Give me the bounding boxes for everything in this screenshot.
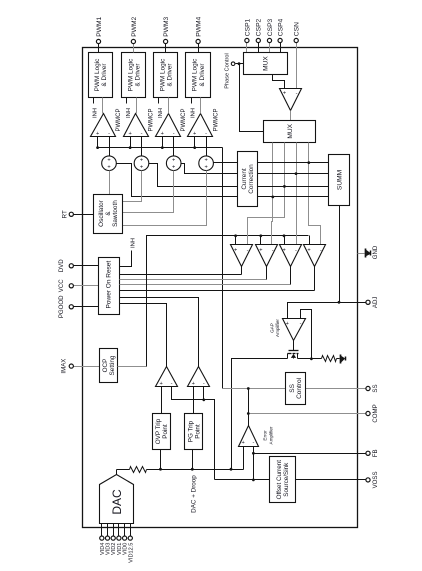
comparator PWMCP2 xyxy=(124,109,155,138)
svg-text:FB: FB xyxy=(372,449,379,457)
pin CSP2 xyxy=(256,18,263,52)
op-amp Error Amplifier xyxy=(239,426,274,447)
wire MUX out3 to OC comparator3 minus xyxy=(295,143,298,245)
svg-text:+: + xyxy=(234,248,237,254)
svg-text:GAP: GAP xyxy=(270,323,275,333)
wire summer1 to correction rail4 xyxy=(117,164,238,197)
block U4 PWM Logic & Driver 4 xyxy=(186,53,211,98)
op-amp CSA current sense amplifier xyxy=(280,89,302,111)
pin VID12.5 xyxy=(128,524,134,563)
wire PWMCP2 minus input to summer 2 xyxy=(141,137,143,156)
svg-text:VCC: VCC xyxy=(58,279,65,292)
svg-text:CSN: CSN xyxy=(294,22,301,36)
summing junction S4 xyxy=(199,156,214,171)
wire U2 output to PWMCP2 xyxy=(136,98,138,114)
summing junction S3 xyxy=(166,156,181,171)
svg-text:Current: Current xyxy=(241,168,248,190)
svg-text:+: + xyxy=(192,381,195,387)
svg-text:Amplifier: Amplifier xyxy=(275,319,280,337)
pin VOSS xyxy=(366,471,379,488)
svg-text:GND: GND xyxy=(372,245,379,259)
wire U1 output to PWMCP1 xyxy=(102,98,104,114)
svg-text:CSP1: CSP1 xyxy=(244,18,251,36)
wire correction rails to SUMM xyxy=(258,163,329,197)
svg-text:PWM Logic: PWM Logic xyxy=(192,58,199,91)
wire U4 output to PWMCP4 xyxy=(200,98,202,114)
wire droop node line xyxy=(147,470,244,513)
svg-text:+: + xyxy=(140,164,143,170)
wire FB to offset current block xyxy=(252,454,255,482)
wire oscillator to summer4 xyxy=(123,171,207,226)
svg-text:& Driver: & Driver xyxy=(101,63,108,87)
wire CSA output to MUX bottom xyxy=(290,111,292,121)
pin VID4 xyxy=(100,524,106,556)
comparator PWMCP4 xyxy=(188,109,220,138)
pin VID3 xyxy=(105,524,111,556)
wire PWMCP4 plus input to error bus xyxy=(193,137,196,150)
svg-text:+: + xyxy=(242,440,245,446)
block PG Trip Point xyxy=(185,414,203,450)
INH stub of U2 xyxy=(126,98,132,118)
svg-text:PG Trip: PG Trip xyxy=(188,420,195,442)
wire MUX out1 to OC comparator2 minus xyxy=(271,143,274,245)
svg-text:Amplifier: Amplifier xyxy=(269,426,274,444)
svg-text:-: - xyxy=(247,248,249,254)
summing junction S2 xyxy=(134,156,149,171)
pin PWM3 xyxy=(163,16,170,52)
resistor R1 droop xyxy=(130,467,147,473)
wire POR to OC comparator1 output xyxy=(120,267,242,275)
svg-text:PWM Logic: PWM Logic xyxy=(94,58,101,91)
svg-text:MUX: MUX xyxy=(263,56,270,71)
wire POR to OVP comparator output xyxy=(120,304,167,367)
wire POR to PG comparator output xyxy=(120,298,199,367)
svg-text:+: + xyxy=(107,164,110,170)
svg-text:OCP: OCP xyxy=(102,359,109,373)
svg-text:+: + xyxy=(259,248,262,254)
pin ADJ xyxy=(358,297,380,309)
comparator PG xyxy=(188,367,210,388)
pin FB xyxy=(366,449,379,457)
comparator PWMCP3 xyxy=(156,109,187,138)
svg-text:-: - xyxy=(108,131,110,137)
svg-text:+: + xyxy=(307,248,310,254)
svg-text:CSP2: CSP2 xyxy=(256,18,263,36)
svg-text:-: - xyxy=(252,440,254,446)
svg-text:INH: INH xyxy=(190,108,196,118)
wire MUX out4 to OC comparator4 minus xyxy=(307,143,320,245)
svg-text:+: + xyxy=(204,157,207,163)
svg-text:-: - xyxy=(300,321,302,327)
svg-text:-: - xyxy=(141,131,143,137)
svg-text:PWM2: PWM2 xyxy=(131,16,138,36)
comparator OC3 xyxy=(280,245,302,267)
comparator OC1 xyxy=(231,245,253,267)
svg-text:+: + xyxy=(128,131,131,137)
wire oscillator to summer3 xyxy=(123,171,174,213)
wire PG Trip Point to droop node xyxy=(191,450,194,471)
svg-text:Setting: Setting xyxy=(109,355,116,375)
svg-text:INH: INH xyxy=(131,238,137,248)
wire MUX top output to CSA plus input xyxy=(273,75,285,89)
svg-text:+: + xyxy=(107,157,110,163)
svg-text:PWMCP: PWMCP xyxy=(149,109,155,132)
svg-text:PWM3: PWM3 xyxy=(163,16,170,36)
svg-text:+: + xyxy=(172,157,175,163)
svg-text:-: - xyxy=(171,381,173,387)
svg-text:PWM4: PWM4 xyxy=(196,16,203,36)
wire POR to OC comparator3 output xyxy=(120,267,291,285)
IC boundary box xyxy=(83,48,358,528)
svg-text:Offset Current: Offset Current xyxy=(276,460,283,500)
wire POR to OC comparator4 output xyxy=(120,267,315,291)
svg-text:-: - xyxy=(205,131,207,137)
pin RT xyxy=(62,210,94,218)
pin VID1 xyxy=(117,524,123,556)
wire OVP plus to OVP Trip Point xyxy=(161,387,163,414)
svg-text:PGOOD: PGOOD xyxy=(58,295,65,318)
svg-text:& Driver: & Driver xyxy=(135,63,142,87)
pin CSP4 xyxy=(278,18,285,52)
ground arrow at R2 xyxy=(337,355,346,364)
svg-text:-: - xyxy=(320,248,322,254)
svg-text:ADJ: ADJ xyxy=(372,297,379,309)
svg-text:DAC + Droop: DAC + Droop xyxy=(191,475,198,513)
wire PWMCP3 minus input to summer 3 xyxy=(173,137,175,156)
block Oscillator & Sawtooth xyxy=(94,195,123,234)
wire OC1 plus stub xyxy=(235,236,237,245)
wire POR to OC comparator2 output xyxy=(120,267,267,280)
pin SS xyxy=(306,384,380,392)
INH stub of U4 xyxy=(190,98,196,118)
svg-text:+: + xyxy=(161,131,164,137)
svg-text:VOSS: VOSS xyxy=(372,471,379,488)
svg-text:-: - xyxy=(173,131,175,137)
svg-text:PWMCP: PWMCP xyxy=(181,109,187,132)
comparator OC4 xyxy=(304,245,326,267)
pin DVD xyxy=(58,259,99,272)
block Current Correction xyxy=(238,152,258,207)
wire POR to INH tap xyxy=(120,238,137,266)
svg-text:PWM1: PWM1 xyxy=(96,16,103,36)
wire Error Amplifier minus to FB xyxy=(252,447,366,455)
wire DAC output to droop resistor xyxy=(117,470,130,475)
svg-text:+: + xyxy=(204,164,207,170)
wire oscillator to summer2 xyxy=(123,171,142,202)
pin IMAX xyxy=(61,359,100,374)
wire Phase Control to MUX bottom xyxy=(240,64,264,132)
svg-text:RT: RT xyxy=(62,210,69,218)
svg-text:+: + xyxy=(286,321,289,327)
pin VID0 xyxy=(123,524,129,556)
svg-text:& Driver: & Driver xyxy=(199,63,206,87)
wire DAC droop node to Error Amplifier plus xyxy=(243,447,245,470)
block Power On Reset xyxy=(99,258,120,315)
wire OCP Setting threshold to OC comparators xyxy=(118,234,309,366)
wire OVP Trip Point to droop node xyxy=(159,450,162,471)
svg-text:Sawtooth: Sawtooth xyxy=(112,200,119,227)
svg-text:VID12.5: VID12.5 xyxy=(128,543,134,563)
wire MOSFET source rail to droop node xyxy=(230,359,288,471)
block U3 PWM Logic & Driver 3 xyxy=(154,53,178,98)
wire OVP and PG minus inputs to VOSS line xyxy=(172,387,215,480)
svg-text:SUMM: SUMM xyxy=(336,170,343,190)
svg-text:COMP: COMP xyxy=(372,404,379,422)
svg-text:Oscillator: Oscillator xyxy=(98,199,105,227)
svg-text:Point: Point xyxy=(195,424,202,439)
svg-text:&: & xyxy=(105,211,112,216)
svg-text:-: - xyxy=(203,381,205,387)
wire VOSS line xyxy=(215,479,366,481)
block U2 PWM Logic & Driver 2 xyxy=(122,53,146,98)
block SUMM xyxy=(329,155,350,206)
wire GAP amp minus feedback xyxy=(301,310,313,361)
svg-text:MUX: MUX xyxy=(287,123,294,138)
wire U3 output to PWMCP3 xyxy=(168,98,170,114)
INH stub of U1 xyxy=(92,98,98,118)
svg-text:PWMCP: PWMCP xyxy=(116,109,122,132)
block Offset Current Source/Sink xyxy=(270,457,296,503)
svg-text:+: + xyxy=(283,91,286,97)
pin VID2 xyxy=(111,524,117,556)
svg-text:+: + xyxy=(140,157,143,163)
svg-text:Correction: Correction xyxy=(248,164,255,194)
block MUX bottom xyxy=(264,121,316,143)
wire SS line left segment xyxy=(223,387,286,390)
wire error bus to PWMCP plus inputs xyxy=(98,148,223,389)
wire GAP amp plus input to ADJ line xyxy=(288,303,358,319)
resistor R2 xyxy=(322,356,337,362)
comparator OVP xyxy=(156,367,178,388)
svg-text:+: + xyxy=(159,381,162,387)
pin CSP1 xyxy=(244,18,251,52)
pin CSN xyxy=(294,22,301,89)
svg-text:Phase Control: Phase Control xyxy=(225,53,231,88)
wire MUX out2 to OC comparator1 minus xyxy=(248,143,286,245)
comparator PWMCP1 xyxy=(91,109,123,138)
svg-text:CSP3: CSP3 xyxy=(267,18,274,36)
block DAC xyxy=(100,475,134,524)
summing junction S1 xyxy=(102,156,117,171)
wire SUMM output to ADJ line xyxy=(338,206,341,304)
block OCP Setting xyxy=(100,349,118,383)
pin PGOOD xyxy=(58,295,99,318)
wire PWMCP1 minus input to summer 1 xyxy=(109,137,111,156)
svg-text:OVP Trip: OVP Trip xyxy=(155,418,162,444)
wire PWMCP1 plus input to error bus xyxy=(96,137,99,150)
svg-text:SS: SS xyxy=(289,383,296,392)
svg-text:INH: INH xyxy=(92,108,98,118)
svg-text:CSP4: CSP4 xyxy=(278,18,285,36)
wire Error Amplifier output riser xyxy=(248,389,250,426)
svg-text:-: - xyxy=(296,91,298,97)
svg-text:PWM Logic: PWM Logic xyxy=(159,58,166,91)
wire MOSFET drain rail to resistor xyxy=(298,358,322,360)
svg-text:+: + xyxy=(172,164,175,170)
svg-text:IMAX: IMAX xyxy=(61,359,68,374)
pin PWM2 xyxy=(131,16,138,52)
pin CSP3 xyxy=(267,18,274,52)
svg-text:INH: INH xyxy=(158,108,164,118)
node Phase Control xyxy=(225,53,244,88)
pin PWM1 xyxy=(96,16,103,52)
wire summer4 to correction rail1 xyxy=(214,162,238,164)
pin GND with ground arrow xyxy=(358,245,380,259)
wire PWMCP3 plus input to error bus xyxy=(161,137,164,150)
wire summer3 to correction rail2 xyxy=(182,164,238,174)
svg-text:Power On Reset: Power On Reset xyxy=(106,261,113,309)
block OVP Trip Point xyxy=(153,414,171,450)
svg-text:Error: Error xyxy=(262,430,267,441)
block MUX top xyxy=(244,53,288,75)
svg-text:-: - xyxy=(272,248,274,254)
block SS Control xyxy=(286,373,306,405)
op-amp GAP Amplifier xyxy=(270,319,306,341)
svg-text:+: + xyxy=(193,131,196,137)
wire PG plus to PG Trip Point xyxy=(193,387,195,414)
wire PWMCP2 plus input to error bus xyxy=(129,137,132,150)
svg-text:Control: Control xyxy=(296,377,303,399)
svg-text:PWMCP: PWMCP xyxy=(213,109,219,132)
svg-text:SS: SS xyxy=(372,384,379,392)
INH stub of U3 xyxy=(158,98,164,118)
svg-text:PWM Logic: PWM Logic xyxy=(127,58,134,91)
comparator OC2 xyxy=(256,245,278,267)
wire summer2 to correction rail3 xyxy=(149,164,238,187)
svg-text:DVD: DVD xyxy=(58,259,65,272)
svg-text:-: - xyxy=(295,248,297,254)
wire OC3 plus stub xyxy=(284,236,286,245)
svg-text:Point: Point xyxy=(162,424,169,439)
wire oscillator to summer1 xyxy=(109,171,111,195)
svg-text:+: + xyxy=(96,131,99,137)
pin PWM4 xyxy=(196,16,203,52)
svg-text:+: + xyxy=(282,248,285,254)
block U1 PWM Logic & Driver 1 xyxy=(89,53,113,98)
svg-text:INH: INH xyxy=(126,108,132,118)
svg-text:DAC: DAC xyxy=(110,489,124,515)
svg-text:Source/Sink: Source/Sink xyxy=(283,462,290,497)
transistor Q1 droop MOSFET xyxy=(288,341,299,359)
pin VCC xyxy=(58,279,99,292)
wire PWMCP4 minus input to summer 4 xyxy=(206,137,208,156)
pin COMP xyxy=(247,404,379,422)
wire OC2 plus stub xyxy=(260,236,262,245)
wire OC4 plus stub xyxy=(309,236,311,245)
svg-text:& Driver: & Driver xyxy=(167,63,174,87)
